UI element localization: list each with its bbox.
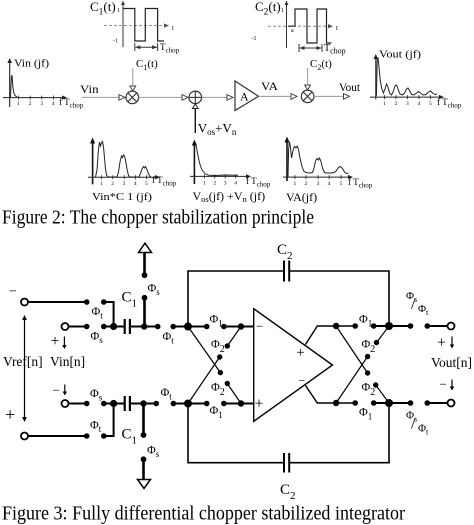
wire C1(t) into M1: [132, 68, 134, 87]
arrowhead into summer: [182, 95, 188, 101]
svg-text:Φs: Φs: [147, 443, 160, 460]
svg-text:5: 5: [145, 181, 148, 187]
svg-text:/: /: [411, 296, 416, 313]
svg-text:Vin: Vin: [80, 82, 99, 96]
arrowhead C1(t) into M1: [130, 86, 136, 91]
svg-text:Φt: Φt: [163, 329, 175, 346]
wire node B1 to C1 top: [104, 326, 125, 328]
wire Vin+ input: [69, 326, 87, 328]
svg-text:Φ1: Φ1: [359, 312, 372, 329]
svg-text:Φ2: Φ2: [362, 380, 376, 399]
svg-text:Vos+Vn: Vos+Vn: [198, 121, 237, 138]
svg-text:f Tchop: f Tchop: [437, 97, 462, 110]
wire Vref- input: [28, 301, 87, 303]
wire node D2 to output switch: [389, 402, 411, 404]
svg-text:1: 1: [383, 101, 386, 107]
capacitor C2 (bottom) with feedback wire: [188, 403, 389, 473]
waveform plot C1(t): axes: [104, 1, 169, 47]
svg-text:C1: C1: [122, 290, 138, 310]
node C2R junction (bottom): [140, 400, 146, 406]
wire node D1 to output switch: [389, 325, 411, 327]
switch Phi-t (top mid): [155, 324, 176, 330]
wire to terminal Vout-: [427, 402, 447, 404]
arrow Vref reference (double headed): [22, 315, 27, 422]
svg-text:-1: -1: [113, 39, 118, 45]
square wave C1(t): [124, 9, 165, 42]
switch Phi-s (Vin+ branch): [84, 324, 107, 330]
wire Vin- input: [69, 403, 87, 405]
wire node B2 to C1 bottom: [104, 403, 125, 405]
svg-text:Vout (jf): Vout (jf): [379, 49, 421, 61]
switch Phi-1 (output chopper top): [352, 323, 376, 329]
svg-text:f Tchop: f Tchop: [246, 176, 271, 189]
input chopper: wire A1 straight: [188, 326, 207, 328]
spectrum curve Vout(jf): [376, 58, 437, 97]
svg-text:4: 4: [418, 101, 421, 107]
wire M2 to Vout: [314, 95, 343, 97]
ground (bottom): [138, 480, 151, 489]
svg-text:+: +: [5, 405, 15, 425]
summer S1: [189, 91, 202, 104]
svg-text:5: 5: [340, 181, 343, 187]
node op-amp inverting input: [238, 323, 244, 329]
switch Phi-1 (output chopper bottom): [352, 400, 376, 406]
op-amp U1: [254, 309, 333, 422]
switch Phi-1 (input chopper top): [204, 324, 227, 330]
arrowhead into M2: [291, 94, 297, 100]
wire Phi-s stub (top) upper: [143, 253, 146, 276]
svg-text:C1(t): C1(t): [136, 58, 158, 72]
square wave C2(t): [288, 9, 332, 43]
svg-text:Φs: Φs: [91, 329, 104, 346]
spectrum plot Vin(jf): axes: [3, 58, 67, 107]
svg-text:/: /: [411, 416, 416, 433]
svg-text:1: 1: [281, 8, 284, 14]
arrow (Vout+ direction): [450, 337, 454, 349]
spectrum plot Vos+Vn: axes: [190, 140, 251, 187]
spectrum plot VA(jf): axes: [283, 137, 353, 188]
svg-text:A: A: [240, 90, 249, 104]
wire to node D1: [374, 325, 389, 327]
wire C1 bottom to node C2R: [130, 403, 156, 405]
arrowhead into M1: [119, 95, 125, 101]
switch Phi-s/Phi-t (output bottom): [408, 400, 430, 406]
svg-text:1: 1: [117, 8, 120, 14]
svg-text:2: 2: [29, 101, 32, 107]
svg-text:+: +: [51, 333, 60, 350]
switch Phi-t (Vref- branch): [84, 299, 107, 305]
svg-text:Φt: Φt: [161, 385, 173, 402]
svg-text:3: 3: [224, 181, 227, 187]
arrowhead Vout: [344, 94, 350, 100]
output chopper: cross wire down with switch Phi-2: [336, 326, 389, 403]
wire L-link row4 to node B2: [104, 404, 114, 437]
node op-amp output-: [333, 400, 339, 406]
svg-text:f Tchop: f Tchop: [59, 97, 84, 110]
svg-text:1: 1: [203, 181, 206, 187]
waveform plot C2(t): axes: [268, 1, 333, 48]
wire to op-amp non-inverting node: [224, 403, 254, 405]
arrowhead Vos+Vn into summer: [192, 104, 198, 109]
dimension arrow Tchop (C2): [299, 44, 322, 52]
svg-text:Vref[n]: Vref[n]: [3, 354, 43, 369]
svg-text:1: 1: [17, 101, 20, 107]
svg-text:Vos(jf) +Vn (jf): Vos(jf) +Vn (jf): [193, 189, 266, 204]
svg-text:Vin (jf): Vin (jf): [14, 58, 49, 70]
svg-text:4: 4: [234, 181, 237, 187]
svg-text:Φ1: Φ1: [210, 312, 223, 329]
arrow (Vout- direction): [450, 380, 454, 391]
label Phi-s/Phi-t (output top): [406, 290, 429, 317]
switch Phi-s to ground (bottom): [141, 432, 147, 462]
switch Phi-s (Vin- branch): [84, 401, 107, 407]
switch Phi-s to ground (top): [142, 272, 148, 300]
output chopper: cross wire up with switch Phi-2: [336, 326, 389, 403]
amplifier A: [235, 81, 259, 111]
svg-text:3: 3: [40, 101, 43, 107]
svg-text:-1: -1: [252, 36, 257, 42]
svg-text:t: t: [336, 24, 338, 32]
node D2 junction: [385, 399, 393, 407]
svg-text:−: −: [53, 383, 60, 398]
svg-text:Φ1: Φ1: [359, 405, 372, 422]
svg-text:1: 1: [294, 181, 297, 187]
svg-text:f Tchop: f Tchop: [152, 175, 177, 188]
spectrum curve Vos+Vn (1/f): [196, 144, 238, 176]
spectrum curve Vin(jf): [11, 75, 18, 98]
wire op-amp positive output tap: [306, 326, 356, 345]
input chopper: wire A2 straight: [188, 403, 207, 405]
wire C1 top to node C1R: [130, 326, 158, 328]
node A2 junction: [184, 400, 192, 408]
svg-text:C2: C2: [277, 242, 293, 262]
capacitor C2 (top) with feedback wire: [188, 261, 389, 327]
svg-text:Vout: Vout: [339, 80, 361, 94]
svg-text:C2: C2: [280, 482, 296, 502]
spectrum curve VA(jf): [288, 142, 349, 178]
svg-text:−: −: [9, 285, 17, 300]
terminal Vref+: [21, 433, 28, 440]
svg-text:C1(t): C1(t): [90, 0, 116, 18]
svg-text:Tchop: Tchop: [160, 42, 180, 55]
terminal Vref-: [21, 299, 28, 306]
arrowhead into amplifier: [227, 95, 233, 101]
spectrum plot Vout(jf): axes: [370, 54, 444, 107]
switch Phi-s/Phi-t (output top): [408, 323, 430, 329]
spectrum plot Vin*C1(jf): axes: [88, 138, 160, 188]
switch Phi-t (bottom mid): [153, 401, 176, 407]
svg-text:Φs: Φs: [90, 386, 103, 403]
label Phi-s/Phi-t (output bottom): [406, 410, 429, 437]
svg-text:4: 4: [52, 101, 55, 107]
input chopper: cross wire A2-up with switch Phi-2: [188, 327, 241, 404]
svg-text:Vout[n]: Vout[n]: [431, 355, 472, 370]
svg-text:2: 2: [111, 181, 114, 187]
wire to node D2: [374, 402, 389, 404]
terminal Vout+: [448, 323, 455, 330]
wire Phi-s stub (bottom) lower: [142, 459, 145, 479]
mixer M2: [301, 90, 314, 103]
svg-text:C2(t): C2(t): [310, 58, 332, 72]
switch Phi-t (Vref+ branch): [84, 433, 107, 439]
node op-amp output+: [333, 323, 339, 329]
svg-text:Φ1: Φ1: [210, 403, 223, 420]
svg-text:VA(jf): VA(jf): [286, 190, 317, 204]
svg-text:Vin[n]: Vin[n]: [50, 354, 85, 369]
svg-text:Φ2: Φ2: [211, 337, 225, 356]
svg-text:Φt: Φt: [92, 304, 104, 321]
svg-text:Figure 2: The chopper stabiliz: Figure 2: The chopper stabilization prin…: [2, 207, 314, 229]
svg-text:Φs: Φs: [148, 281, 161, 298]
node op-amp non-inverting input: [238, 400, 244, 406]
mixer M1: [126, 91, 139, 104]
svg-text:2: 2: [395, 101, 398, 107]
wire Vin to mixer M1: [82, 96, 119, 98]
svg-text:C2(t): C2(t): [255, 0, 281, 18]
svg-text:Φt: Φt: [418, 423, 429, 437]
wire Vref+ input: [28, 435, 87, 437]
arrowhead C2(t) into M2: [305, 85, 311, 90]
wire summer to amplifier: [202, 96, 227, 98]
svg-text:a: a: [291, 28, 294, 34]
svg-text:Φt: Φt: [418, 303, 429, 317]
wire Phi-s stub (top) lower: [143, 299, 146, 327]
svg-text:Φ2: Φ2: [211, 380, 225, 399]
wire M1 to summer: [139, 96, 182, 98]
terminal Vout-: [448, 400, 455, 407]
svg-text:C1: C1: [122, 427, 138, 447]
spectrum curve Vin*C1(jf): [96, 142, 152, 178]
arrow (Vin- direction): [63, 385, 67, 396]
svg-text:3: 3: [406, 101, 409, 107]
wire to node A1: [173, 326, 188, 328]
wire to terminal Vout+: [427, 325, 447, 327]
wire to op-amp inverting node: [224, 326, 254, 328]
svg-text:2: 2: [213, 181, 216, 187]
node C1R junction (top): [141, 323, 147, 329]
svg-text:+: +: [437, 335, 446, 352]
svg-text:4: 4: [134, 181, 137, 187]
svg-text:Vin*C 1 (jf): Vin*C 1 (jf): [92, 191, 152, 203]
svg-text:+: +: [255, 396, 264, 413]
svg-text:4: 4: [328, 181, 331, 187]
svg-text:5: 5: [429, 101, 432, 107]
svg-text:f Tchop: f Tchop: [348, 177, 373, 190]
svg-text:−: −: [256, 319, 263, 334]
terminal Vin-: [62, 400, 69, 407]
svg-text:Φ2: Φ2: [362, 337, 376, 356]
svg-text:1: 1: [100, 181, 103, 187]
switch Phi-1 (input chopper bottom): [204, 401, 227, 407]
wire op-amp negative output tap: [306, 386, 356, 404]
svg-text:Φt: Φt: [90, 418, 102, 435]
node A1 junction: [184, 323, 192, 331]
svg-text:Figure 3: Fully differential c: Figure 3: Fully differential chopper sta…: [2, 503, 405, 525]
svg-text:3: 3: [123, 181, 126, 187]
input chopper: cross wire A1-down with switch Phi-2: [188, 327, 241, 404]
dimension arrow Tchop (C1): [135, 43, 158, 51]
svg-text:−: −: [299, 374, 306, 388]
node B1 junction: [110, 323, 117, 330]
capacitor C1 (bottom): [125, 396, 130, 411]
svg-text:2: 2: [305, 181, 308, 187]
arrow (Vin+ direction): [62, 337, 66, 350]
wire Phi-s stub (bottom) upper: [142, 404, 145, 436]
svg-text:+: +: [297, 345, 305, 361]
ground (top): [139, 243, 152, 252]
wire amplifier to mixer M2: [259, 95, 292, 97]
wire Vos+Vn into summer: [194, 109, 196, 134]
svg-text:−: −: [440, 377, 447, 392]
wire to node A2: [173, 403, 188, 405]
node B2 junction: [110, 400, 117, 407]
capacitor C1 (top): [125, 319, 130, 334]
svg-text:VA: VA: [261, 79, 278, 93]
svg-text:Tchop: Tchop: [324, 43, 346, 56]
wire L-link row1 to node B1: [104, 302, 114, 327]
wire C2(t) into M2: [307, 68, 309, 86]
svg-text:t: t: [172, 24, 174, 32]
node D1 junction: [385, 322, 393, 330]
svg-text:3: 3: [317, 181, 320, 187]
terminal Vin+: [62, 323, 69, 330]
